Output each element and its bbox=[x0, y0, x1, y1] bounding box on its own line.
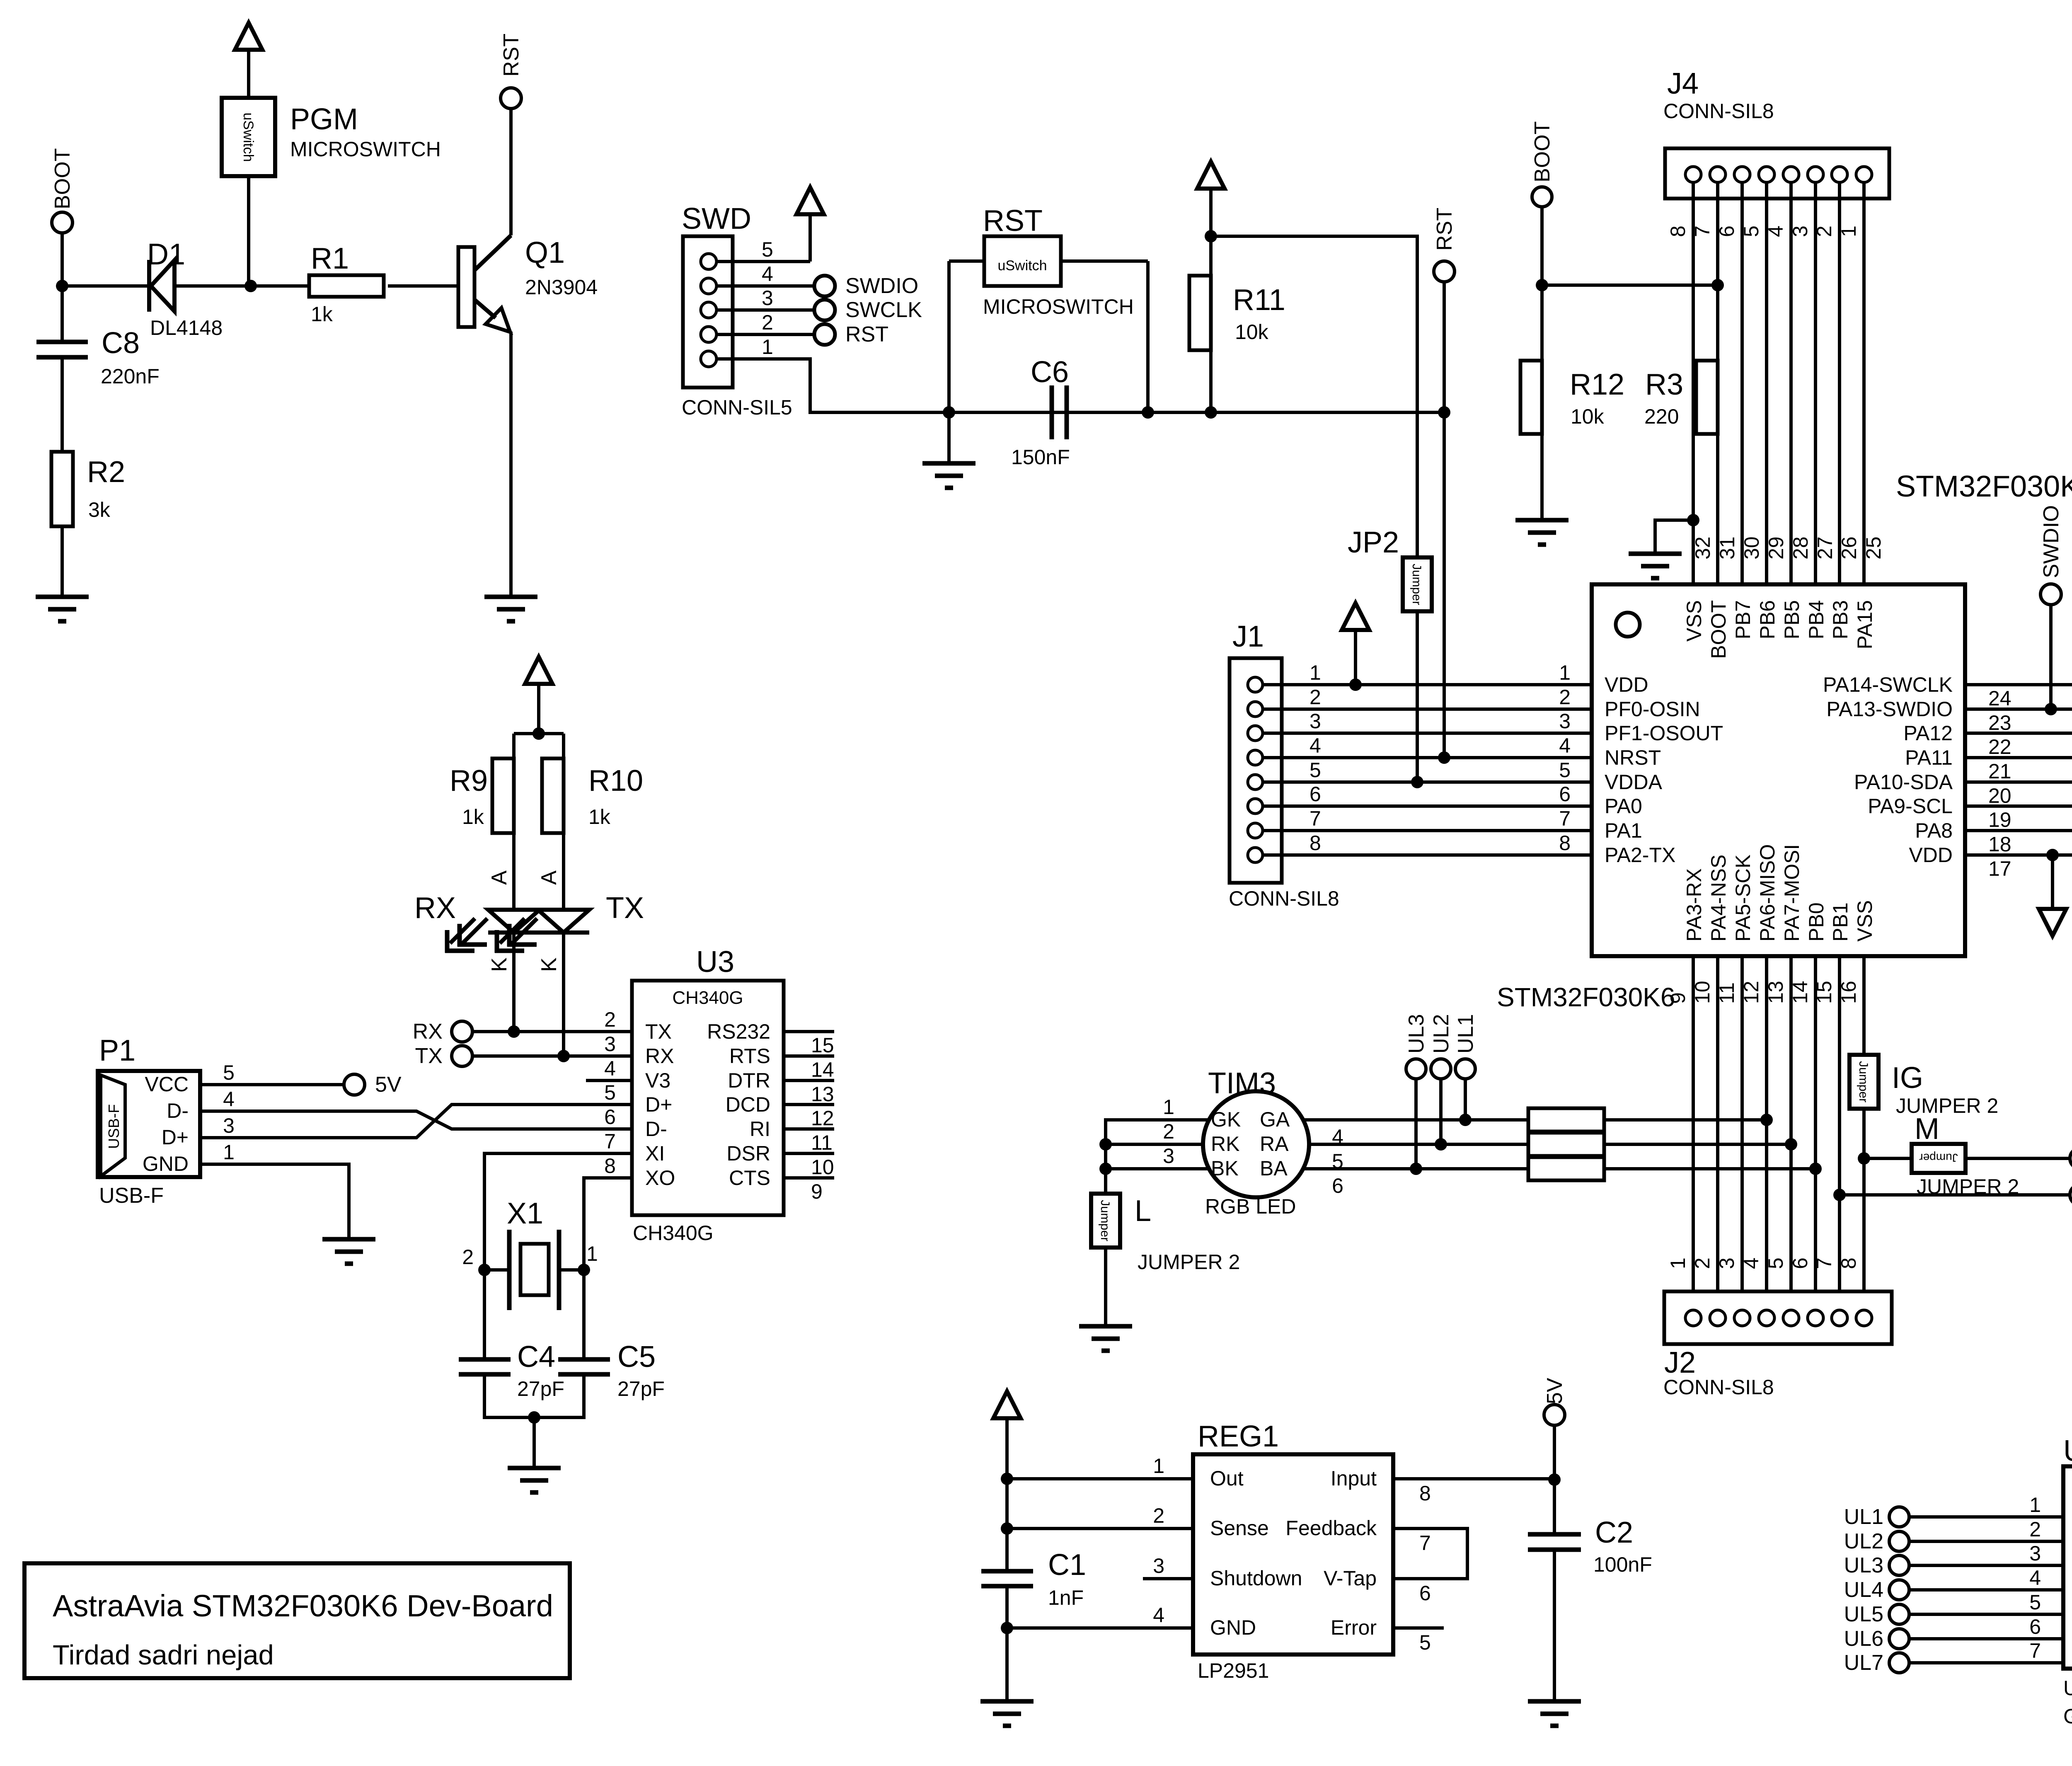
wire switch left bbox=[949, 259, 984, 263]
svg-text:2: 2 bbox=[1691, 1257, 1714, 1269]
svg-text:4: 4 bbox=[223, 1088, 235, 1111]
svg-text:VSS: VSS bbox=[1682, 600, 1706, 642]
wire BOOT down bbox=[61, 233, 64, 286]
svg-text:L: L bbox=[1135, 1194, 1151, 1228]
svg-text:PF1-OSOUT: PF1-OSOUT bbox=[1605, 722, 1723, 745]
svg-text:Jumper: Jumper bbox=[1857, 1061, 1870, 1102]
wire chip pin 10 to J2 bbox=[1716, 956, 1719, 1310]
svg-text:A: A bbox=[487, 870, 511, 885]
wire to R12 bbox=[1540, 285, 1544, 361]
svg-text:7: 7 bbox=[1813, 1257, 1836, 1269]
wire UL3 down bbox=[1414, 1079, 1418, 1169]
svg-text:PA3-RX: PA3-RX bbox=[1682, 868, 1706, 942]
svg-text:uSwitch: uSwitch bbox=[997, 258, 1047, 274]
terminal UL5 bbox=[1889, 1604, 1909, 1624]
wire PGM power bbox=[247, 49, 250, 98]
svg-text:5: 5 bbox=[223, 1061, 235, 1084]
wire J4 column x=4498 bbox=[1862, 182, 1866, 584]
wire chip pin 9 to J2 bbox=[1692, 956, 1695, 1310]
wire chip to J3 pin 2 bbox=[1965, 829, 2072, 832]
wire TIM3 pin2 bbox=[1106, 1143, 1205, 1146]
svg-text:D-: D- bbox=[645, 1117, 667, 1141]
svg-text:2: 2 bbox=[604, 1008, 616, 1031]
junction BOOT/D1/C8 bbox=[56, 280, 68, 292]
IC U3 CH340G bbox=[632, 981, 784, 1215]
title block bbox=[24, 1563, 570, 1678]
power flag +V (R11) bbox=[1197, 162, 1225, 189]
svg-text:VDD: VDD bbox=[1605, 673, 1648, 696]
power flag +V (PGM) bbox=[235, 23, 262, 50]
svg-text:PB1: PB1 bbox=[1829, 902, 1852, 942]
wire chip to J3 pin 7 bbox=[1965, 707, 2072, 711]
svg-text:UL4: UL4 bbox=[1844, 1578, 1883, 1602]
svg-text:RA: RA bbox=[1260, 1132, 1289, 1156]
svg-text:USB-F: USB-F bbox=[99, 1184, 164, 1208]
svg-text:4: 4 bbox=[2029, 1566, 2041, 1589]
svg-text:PA15: PA15 bbox=[1853, 600, 1876, 649]
svg-text:K: K bbox=[537, 957, 561, 972]
rgb led TIM3 bbox=[1203, 1091, 1309, 1197]
wire PB1 to UL4 bbox=[1840, 1193, 2070, 1197]
wire +V rail to JP2 bbox=[1211, 236, 1417, 557]
svg-text:J2: J2 bbox=[1664, 1346, 1696, 1379]
svg-text:2N3904: 2N3904 bbox=[525, 276, 598, 299]
wire J1 pin 5 to chip bbox=[1263, 780, 1592, 784]
terminal UL4 bbox=[2070, 1185, 2072, 1205]
svg-text:DTR: DTR bbox=[728, 1069, 770, 1092]
svg-text:Jumper: Jumper bbox=[1919, 1151, 1958, 1164]
wire BOOT to R3 column bbox=[1542, 283, 1718, 287]
wire GND (REG1) bbox=[1007, 1626, 1193, 1630]
svg-text:5: 5 bbox=[1310, 758, 1321, 782]
svg-text:IG: IG bbox=[1892, 1061, 1923, 1095]
wire J4 pin7 upper bbox=[1716, 182, 1719, 361]
svg-text:6: 6 bbox=[1419, 1582, 1431, 1605]
junction JP2/VDDA bbox=[1411, 776, 1423, 788]
wire J1 pin 1 to chip bbox=[1263, 683, 1592, 686]
svg-text:BOOT: BOOT bbox=[1530, 121, 1554, 182]
svg-text:TX: TX bbox=[606, 891, 644, 925]
wire U3 right pin 9 bbox=[784, 1176, 834, 1180]
svg-text:PA0: PA0 bbox=[1605, 795, 1642, 818]
wire power/Out/Sense bbox=[1005, 1417, 1009, 1571]
wire C2 to ground bbox=[1553, 1550, 1556, 1701]
svg-text:UL5: UL5 bbox=[1844, 1602, 1883, 1626]
svg-text:17: 17 bbox=[1988, 857, 2011, 880]
svg-text:PA10-SDA: PA10-SDA bbox=[1854, 770, 1953, 794]
svg-text:RS232: RS232 bbox=[707, 1020, 770, 1043]
terminal BOOT (top-left) bbox=[52, 212, 73, 233]
junction C4/C5 ground bbox=[528, 1411, 540, 1424]
ground (crystal) bbox=[508, 1468, 561, 1492]
svg-text:VDDA: VDDA bbox=[1605, 770, 1663, 794]
wire to R9 bbox=[512, 734, 516, 758]
svg-text:8: 8 bbox=[1666, 225, 1690, 237]
junction BA/PB0 bbox=[1809, 1163, 1822, 1175]
junction PGM node bbox=[244, 280, 257, 292]
junction Sense bbox=[1001, 1522, 1013, 1535]
connector P1 USB-F bbox=[98, 1071, 200, 1177]
svg-text:STM32F030K6T6: STM32F030K6T6 bbox=[1896, 470, 2072, 503]
svg-text:UL7: UL7 bbox=[1844, 1651, 1883, 1675]
svg-text:14: 14 bbox=[1789, 981, 1812, 1004]
ground (P1) bbox=[322, 1239, 375, 1264]
svg-text:32: 32 bbox=[1691, 536, 1714, 560]
svg-text:4: 4 bbox=[1559, 734, 1571, 757]
svg-text:PB4: PB4 bbox=[1805, 600, 1828, 640]
svg-text:UL1: UL1 bbox=[1454, 1014, 1478, 1054]
wire C1 to ground bbox=[1005, 1586, 1009, 1701]
wire VSS to ground bbox=[1655, 520, 1693, 554]
wire R10 to TX led bbox=[562, 833, 565, 910]
wire C4/C5 to ground bar bbox=[484, 1374, 584, 1417]
svg-text:UL3: UL3 bbox=[1404, 1014, 1428, 1054]
svg-text:4: 4 bbox=[762, 262, 773, 286]
wire R1 to Q1 base bbox=[388, 284, 458, 288]
svg-text:5: 5 bbox=[2029, 1591, 2041, 1614]
svg-text:J4: J4 bbox=[1667, 67, 1699, 100]
svg-text:PB3: PB3 bbox=[1829, 600, 1852, 640]
svg-text:3: 3 bbox=[1559, 710, 1571, 733]
wire RST terminal down bbox=[1443, 282, 1446, 412]
terminal RX bbox=[452, 1021, 472, 1042]
wire link2 to PA7 column bbox=[1604, 1143, 1791, 1146]
ground (REG1) bbox=[980, 1701, 1034, 1726]
svg-text:7: 7 bbox=[2029, 1639, 2041, 1662]
wire J4 column x=4381 bbox=[1814, 182, 1817, 584]
svg-text:CH340G: CH340G bbox=[633, 1221, 714, 1245]
wire M jumper to MGND bbox=[1965, 1157, 2070, 1160]
junction RX bbox=[508, 1025, 520, 1038]
svg-text:6: 6 bbox=[1559, 782, 1571, 806]
svg-text:5: 5 bbox=[762, 238, 773, 261]
ground (C2) bbox=[1528, 1701, 1581, 1726]
wire BOOT terminal down bbox=[1540, 207, 1544, 285]
terminal UL3 bbox=[1406, 1059, 1426, 1079]
svg-text:GND: GND bbox=[143, 1152, 189, 1175]
junction cathode bus 2 bbox=[1099, 1138, 1112, 1151]
svg-text:28: 28 bbox=[1789, 536, 1812, 560]
wire P1 D+ to U3 D+ bbox=[200, 1105, 632, 1138]
wire SWD pin2 bbox=[716, 333, 814, 336]
wire U3 right pin 10 bbox=[784, 1152, 834, 1155]
svg-text:27: 27 bbox=[1813, 536, 1837, 560]
svg-text:9: 9 bbox=[1666, 992, 1690, 1004]
wire UL4 to U2 bbox=[1909, 1588, 2063, 1592]
wire UL7 to U2 bbox=[1909, 1661, 2063, 1664]
svg-text:4: 4 bbox=[1153, 1604, 1164, 1627]
svg-text:PA2-TX: PA2-TX bbox=[1605, 843, 1675, 867]
svg-text:15: 15 bbox=[811, 1034, 834, 1057]
wire J4 column x=4439 bbox=[1838, 182, 1841, 584]
svg-text:1k: 1k bbox=[311, 303, 333, 326]
link (fuse box) 3 bbox=[1528, 1157, 1604, 1180]
svg-text:5: 5 bbox=[604, 1081, 616, 1104]
svg-text:23: 23 bbox=[1988, 711, 2011, 734]
svg-text:SWDIO: SWDIO bbox=[845, 274, 918, 298]
svg-text:UL2: UL2 bbox=[1429, 1014, 1453, 1054]
wire U3 XI to crystal bbox=[484, 1153, 632, 1359]
wire J1 pin 4 to chip bbox=[1263, 756, 1592, 759]
connector J2 CONN-SIL8 bbox=[1664, 1291, 1892, 1344]
wire VDD to down flag bbox=[2051, 855, 2054, 909]
resistor R3 bbox=[1696, 361, 1718, 434]
svg-text:XO: XO bbox=[645, 1166, 675, 1189]
wire chip to J3 pin 1 bbox=[1965, 853, 2072, 857]
svg-text:R3: R3 bbox=[1645, 368, 1683, 401]
svg-text:20: 20 bbox=[1988, 784, 2011, 807]
wire R11 to reset net bbox=[1209, 350, 1213, 412]
junction UL2 bbox=[1435, 1138, 1447, 1151]
svg-text:MICROSWITCH: MICROSWITCH bbox=[983, 295, 1134, 318]
wire 5V node to C2 bbox=[1553, 1480, 1556, 1534]
wire TIM3 pin3 bbox=[1106, 1167, 1209, 1170]
svg-text:2: 2 bbox=[1163, 1120, 1174, 1143]
svg-text:RX: RX bbox=[414, 891, 456, 925]
ground (TIM3) bbox=[1079, 1326, 1132, 1351]
resistor R9 bbox=[492, 758, 514, 833]
wire chip pin 16 to IG bbox=[1862, 956, 1866, 1055]
wire R9 to RX led bbox=[512, 833, 516, 910]
svg-text:3: 3 bbox=[2029, 1542, 2041, 1565]
svg-text:RST: RST bbox=[983, 204, 1043, 237]
wire TIM3 BA to PB0 bbox=[1303, 1167, 1528, 1170]
terminal UL1 bbox=[1889, 1507, 1909, 1527]
svg-text:BOOT: BOOT bbox=[1707, 600, 1730, 659]
wire J1 pin 8 to chip bbox=[1263, 853, 1592, 857]
svg-text:8: 8 bbox=[1310, 831, 1321, 855]
svg-text:Q1: Q1 bbox=[525, 236, 565, 269]
wire power to R9/R10 bbox=[537, 683, 540, 734]
svg-text:VSS: VSS bbox=[1853, 900, 1876, 942]
svg-text:3: 3 bbox=[1715, 1257, 1738, 1269]
svg-text:3: 3 bbox=[1163, 1144, 1174, 1168]
svg-text:1: 1 bbox=[586, 1242, 598, 1265]
svg-text:CONN-SIL8: CONN-SIL8 bbox=[1663, 99, 1774, 123]
svg-text:6: 6 bbox=[604, 1105, 616, 1129]
svg-text:USB-F: USB-F bbox=[105, 1104, 122, 1149]
svg-text:31: 31 bbox=[1716, 536, 1739, 560]
wire R12 to ground bbox=[1540, 434, 1544, 520]
junction VSS/ground bbox=[1687, 514, 1699, 526]
svg-text:4: 4 bbox=[1310, 734, 1321, 757]
svg-text:DSR: DSR bbox=[726, 1142, 770, 1165]
wire TX to U3 bbox=[472, 1054, 632, 1058]
svg-text:LP2951: LP2951 bbox=[1198, 1659, 1269, 1682]
svg-text:RST: RST bbox=[845, 322, 888, 346]
svg-text:7: 7 bbox=[604, 1130, 616, 1153]
svg-text:UL2: UL2 bbox=[1844, 1529, 1883, 1553]
diode D1 DL4148 bbox=[149, 260, 174, 312]
svg-text:1: 1 bbox=[1153, 1454, 1164, 1478]
wire BOOT node to D1 cathode bbox=[62, 284, 149, 288]
svg-text:PA12: PA12 bbox=[1903, 722, 1953, 745]
wire SWD pin4 bbox=[716, 284, 814, 288]
connector J4 CONN-SIL8 bbox=[1665, 148, 1889, 199]
terminal SWDIO (chip side) bbox=[2041, 584, 2061, 605]
wire UL3 to U2 bbox=[1909, 1564, 2063, 1567]
svg-text:1: 1 bbox=[1666, 1257, 1690, 1269]
wire U3 right pin 15 bbox=[784, 1030, 834, 1033]
wire PGM to node bbox=[247, 176, 250, 286]
wire reset net to NRST bbox=[1443, 412, 1446, 758]
wire D1 anode to R1 bbox=[174, 284, 309, 288]
terminal BOOT (J4 area) bbox=[1532, 187, 1552, 207]
svg-text:RK: RK bbox=[1211, 1132, 1239, 1156]
junction SWDIO/PA13 bbox=[2045, 703, 2057, 715]
junction reset net / RST terminal bbox=[1438, 406, 1450, 419]
link (fuse box) 1 bbox=[1528, 1108, 1604, 1131]
svg-text:27pF: 27pF bbox=[617, 1377, 665, 1400]
svg-text:Error: Error bbox=[1331, 1616, 1377, 1639]
svg-text:3: 3 bbox=[1310, 710, 1321, 733]
svg-text:1: 1 bbox=[762, 335, 773, 359]
wire TX led to TX net bbox=[562, 933, 565, 1056]
svg-text:PB0: PB0 bbox=[1805, 902, 1828, 942]
power flag +V (R9/R10) bbox=[525, 657, 552, 684]
svg-text:PA8: PA8 bbox=[1915, 819, 1953, 842]
wire RX led to RX net bbox=[512, 933, 516, 1032]
svg-text:Input: Input bbox=[1331, 1467, 1377, 1490]
capacitor C5 bbox=[558, 1359, 610, 1374]
wire to ground (crystal) bbox=[533, 1417, 536, 1468]
svg-text:1: 1 bbox=[1163, 1095, 1174, 1119]
svg-text:NRST: NRST bbox=[1605, 746, 1661, 769]
ground (VSS) bbox=[1629, 554, 1682, 578]
wire J4 column x=4204 bbox=[1740, 182, 1744, 584]
svg-text:PA9-SCL: PA9-SCL bbox=[1868, 795, 1953, 818]
terminal UL3 bbox=[1889, 1555, 1909, 1575]
wire SWD pin1 / reset net bbox=[716, 359, 1444, 412]
junction reset net / R11 bbox=[1205, 406, 1217, 419]
wire link3 to PB0 column bbox=[1604, 1167, 1815, 1170]
wire chip pin 15 to J2 bbox=[1838, 956, 1841, 1310]
svg-text:TX: TX bbox=[645, 1020, 672, 1043]
svg-text:RX: RX bbox=[413, 1020, 443, 1044]
wire switch left down bbox=[947, 261, 951, 412]
resistor R12 bbox=[1520, 361, 1542, 434]
junction 5V/REG1 input bbox=[1548, 1473, 1561, 1486]
svg-text:1: 1 bbox=[2029, 1493, 2041, 1516]
power flag (VDD down arrow) bbox=[2039, 909, 2066, 936]
svg-text:21: 21 bbox=[1988, 760, 2011, 783]
svg-text:SWCLK: SWCLK bbox=[845, 298, 922, 322]
svg-text:C6: C6 bbox=[1031, 356, 1069, 389]
svg-text:220nF: 220nF bbox=[101, 365, 160, 388]
svg-text:JP2: JP2 bbox=[1348, 526, 1399, 559]
wire U3 right pin 13 bbox=[784, 1079, 834, 1082]
svg-text:11: 11 bbox=[1715, 982, 1738, 1004]
terminal 5V (P1) bbox=[344, 1074, 365, 1095]
svg-text:2: 2 bbox=[462, 1245, 474, 1269]
svg-text:U2: U2 bbox=[2063, 1434, 2072, 1468]
svg-text:P1: P1 bbox=[99, 1034, 136, 1067]
svg-text:7: 7 bbox=[1559, 807, 1571, 830]
wire R2 to ground bbox=[61, 526, 64, 597]
svg-text:220: 220 bbox=[1644, 405, 1679, 428]
led TX bbox=[495, 910, 589, 953]
svg-text:BOOT: BOOT bbox=[51, 148, 75, 209]
wire Feedback to V-Tap bbox=[1393, 1529, 1467, 1579]
wire Error stub bbox=[1393, 1626, 1444, 1630]
svg-text:PB7: PB7 bbox=[1731, 600, 1755, 640]
svg-text:D1: D1 bbox=[147, 238, 185, 271]
wire J4 column x=4263 bbox=[1765, 182, 1768, 584]
svg-text:PA5-SCK: PA5-SCK bbox=[1731, 855, 1755, 942]
wire P1 VCC to 5V bbox=[200, 1083, 344, 1086]
svg-text:CH340G: CH340G bbox=[672, 988, 743, 1008]
svg-text:4: 4 bbox=[1740, 1257, 1763, 1269]
wire Shutdown stub bbox=[1143, 1577, 1193, 1580]
IC U2 ULN2003A bbox=[2063, 1466, 2072, 1669]
junction BOOT/R3 bbox=[1711, 279, 1724, 291]
svg-text:5: 5 bbox=[1559, 758, 1571, 782]
wire UL5 to U2 bbox=[1909, 1613, 2063, 1616]
svg-text:10: 10 bbox=[1691, 981, 1714, 1004]
svg-text:6: 6 bbox=[1310, 782, 1321, 806]
wire power to VDD row bbox=[1354, 629, 1357, 685]
connector J1 CONN-SIL8 bbox=[1230, 658, 1282, 883]
svg-text:8: 8 bbox=[1559, 831, 1571, 855]
svg-text:GK: GK bbox=[1211, 1108, 1241, 1131]
svg-text:7: 7 bbox=[1419, 1531, 1431, 1555]
wire TIM3 RA to PA7 bbox=[1309, 1143, 1528, 1146]
svg-text:19: 19 bbox=[1988, 808, 2011, 831]
terminal RST (SWD) bbox=[814, 324, 835, 345]
svg-text:8: 8 bbox=[1419, 1482, 1431, 1505]
microswitch RST bbox=[984, 236, 1061, 286]
svg-text:V-Tap: V-Tap bbox=[1324, 1567, 1377, 1590]
terminal SWCLK bbox=[814, 300, 835, 320]
power flag +V (SWD) bbox=[796, 187, 824, 214]
svg-text:D-: D- bbox=[167, 1099, 189, 1122]
ground (R12) bbox=[1515, 520, 1569, 545]
svg-text:UL6: UL6 bbox=[1844, 1627, 1883, 1651]
svg-text:2: 2 bbox=[762, 311, 773, 334]
svg-text:DCD: DCD bbox=[726, 1093, 770, 1116]
svg-text:Jumper: Jumper bbox=[1098, 1200, 1112, 1241]
svg-text:3k: 3k bbox=[88, 498, 111, 521]
svg-text:3: 3 bbox=[223, 1114, 235, 1137]
wire chip to J3 pin 5 bbox=[1965, 756, 2072, 759]
svg-text:V3: V3 bbox=[645, 1069, 670, 1092]
svg-text:PB6: PB6 bbox=[1756, 600, 1779, 640]
svg-text:26: 26 bbox=[1837, 536, 1861, 560]
svg-text:1: 1 bbox=[1310, 661, 1321, 684]
svg-text:100nF: 100nF bbox=[1593, 1553, 1652, 1576]
wire chip pin 12 to J2 bbox=[1765, 956, 1768, 1310]
svg-text:AstraAvia STM32F030K6 Dev-Boar: AstraAvia STM32F030K6 Dev-Board bbox=[53, 1589, 553, 1623]
junction UL3 bbox=[1410, 1163, 1422, 1175]
svg-text:27pF: 27pF bbox=[517, 1377, 564, 1400]
svg-text:PA1: PA1 bbox=[1605, 819, 1642, 842]
capacitor C6 bbox=[1052, 385, 1067, 439]
svg-text:TX: TX bbox=[415, 1044, 443, 1068]
wire U3 right pin 14 bbox=[784, 1054, 834, 1058]
svg-text:ULN2003A: ULN2003A bbox=[2063, 1676, 2072, 1700]
svg-text:1: 1 bbox=[1559, 661, 1571, 684]
svg-text:CONN-SIL8: CONN-SIL8 bbox=[1229, 887, 1339, 910]
svg-text:JUMPER 2: JUMPER 2 bbox=[1896, 1094, 1998, 1117]
wire chip pin 13 to J2 bbox=[1789, 956, 1793, 1310]
terminal UL1 bbox=[1455, 1059, 1475, 1079]
junction +V rail bbox=[1205, 230, 1217, 242]
svg-text:J1: J1 bbox=[1232, 620, 1264, 653]
svg-text:CONN-SIL5: CONN-SIL5 bbox=[682, 396, 792, 419]
svg-text:13: 13 bbox=[811, 1083, 834, 1106]
svg-text:RGB LED: RGB LED bbox=[1205, 1195, 1296, 1218]
svg-text:5V: 5V bbox=[1543, 1378, 1567, 1404]
